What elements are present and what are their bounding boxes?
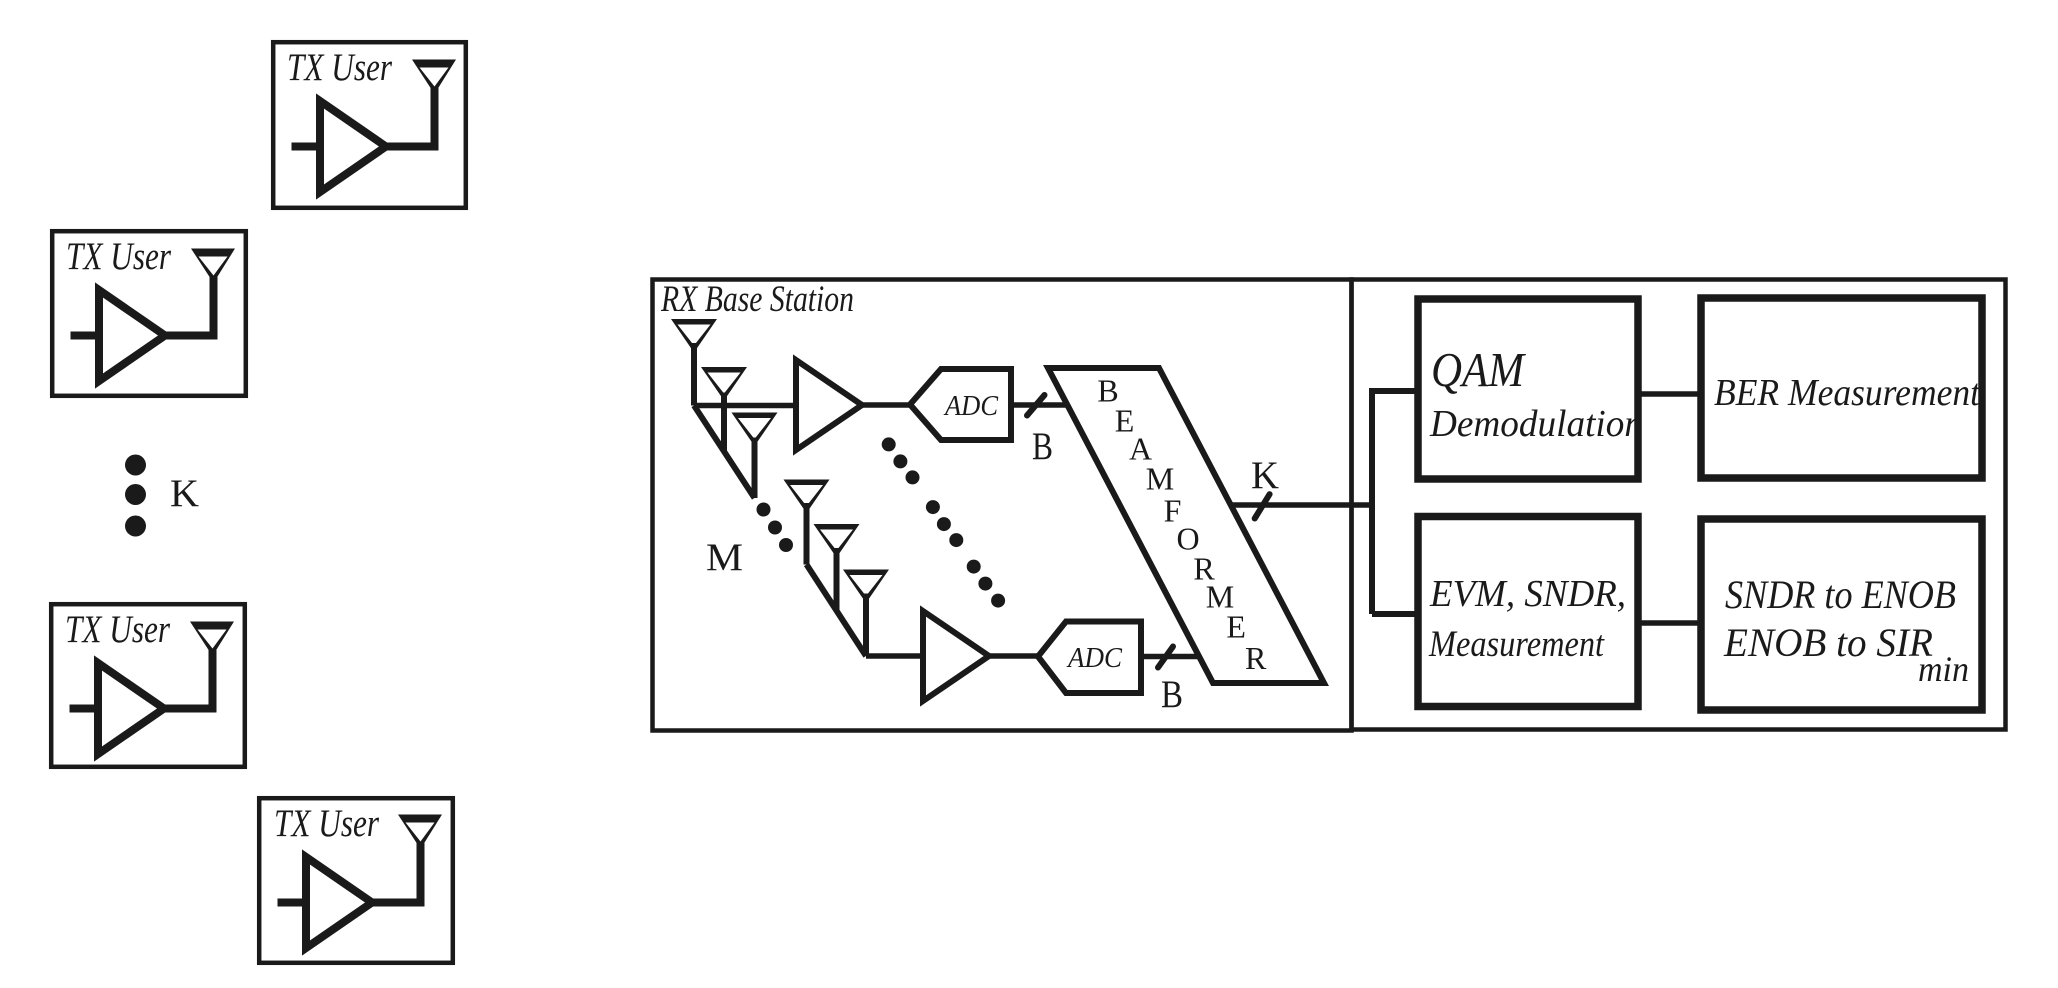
bus width tick B2: [1158, 647, 1173, 668]
bus label B1: [1032, 425, 1053, 468]
svg-text:TX User: TX User: [66, 235, 172, 278]
TX User box 3 label: [65, 608, 171, 651]
svg-text:EVM, SNDR,: EVM, SNDR,: [1429, 573, 1626, 615]
RX antenna 2 stem: [721, 393, 727, 453]
TX User box 4 output wire: [372, 843, 421, 903]
TX User box 1 input wire: [292, 143, 321, 151]
amplifier 1 (LNA): [796, 360, 862, 450]
svg-text:M: M: [1146, 461, 1174, 497]
beamformer label letters: [1097, 373, 1267, 677]
RX antenna 4: [784, 480, 830, 514]
wire amplifier 1 to ADC 1: [862, 402, 912, 408]
ADC 1 label: [943, 390, 998, 422]
QAM Demodulation box: [1418, 299, 1638, 479]
TX User box 4 border: [259, 798, 453, 963]
TX User box 3 border: [51, 604, 245, 767]
wire ADC 1 to beamformer: [1011, 402, 1068, 408]
wire antenna bus to amplifier 2: [866, 653, 923, 659]
middle ellipsis dots (ADC chain gap): [882, 437, 1005, 607]
RX antenna 6 stem: [863, 594, 869, 657]
branch wire to QAM and EVM: [1372, 391, 1418, 614]
RX antenna 2: [701, 367, 747, 401]
amplifier 2 (LNA): [923, 611, 989, 701]
wire ADC 2 to beamformer: [1141, 654, 1199, 660]
TX User box 4 label: [274, 802, 380, 845]
TX User box 3 output wire: [164, 650, 213, 709]
svg-text:B: B: [1032, 425, 1053, 468]
EVM SNDR Measurement label: [1428, 573, 1626, 665]
svg-text:ADC: ADC: [1066, 642, 1122, 674]
TX User box 2 output wire: [165, 277, 214, 336]
svg-text:QAM: QAM: [1431, 342, 1527, 397]
svg-text:ADC: ADC: [943, 390, 998, 422]
SNDR to ENOB box: [1701, 519, 1982, 710]
svg-text:R: R: [1245, 640, 1267, 676]
TX User box 3 input wire: [70, 705, 99, 713]
svg-text:RX Base Station: RX Base Station: [660, 279, 854, 320]
TX User box 2 border: [52, 231, 246, 396]
TX User box 4 antenna: [398, 815, 442, 850]
SNDR to ENOB label: [1723, 572, 1969, 689]
K ellipsis dots: [125, 455, 146, 537]
svg-text:B: B: [1161, 673, 1183, 716]
TX User box 2 input wire: [71, 332, 100, 340]
RX Base Station box: [653, 280, 1352, 731]
svg-text:SNDR to ENOB: SNDR to ENOB: [1725, 572, 1956, 617]
RX antenna 6: [843, 570, 889, 604]
RX antenna 3 stem: [752, 438, 758, 499]
wire beamformer output K: [1231, 502, 1372, 508]
wire amplifier 2 to ADC 2: [989, 653, 1040, 659]
svg-text:M: M: [706, 536, 743, 579]
RX antenna 5 stem: [834, 548, 840, 611]
node M (antenna count label): [706, 536, 743, 579]
BER Measurement label: [1714, 372, 1981, 414]
bus label B2: [1161, 673, 1183, 716]
EVM SNDR Measurement box: [1418, 517, 1638, 707]
svg-text:TX User: TX User: [274, 802, 380, 845]
RX array diagonal 1: [694, 406, 755, 499]
RX array diagonal 2: [807, 565, 867, 657]
RX antenna 1 stem: [691, 343, 697, 406]
TX User box 1 label: [287, 46, 393, 89]
node K (user count label): [170, 472, 199, 515]
BER Measurement box: [1701, 298, 1982, 478]
RX antenna 1: [671, 319, 717, 353]
TX User box 1 antenna: [412, 60, 456, 95]
RX antenna 4 stem: [804, 503, 810, 565]
TX User box 4 input wire: [278, 899, 307, 907]
RX Base Station label: [660, 279, 854, 320]
ADC 1: [910, 369, 1011, 440]
svg-text:min: min: [1918, 649, 1969, 689]
TX User box 3 antenna: [190, 622, 234, 657]
TX User box 2 amplifier: [99, 290, 165, 381]
TX User box 1 border: [273, 42, 466, 208]
svg-text:E: E: [1226, 608, 1246, 644]
svg-text:TX User: TX User: [65, 608, 171, 651]
RX antenna 3: [732, 413, 778, 447]
TX User box 1 amplifier: [320, 101, 386, 192]
TX User box 2 antenna: [191, 249, 235, 284]
bus width tick K: [1255, 494, 1270, 518]
wire antenna bus to amplifier 1: [694, 403, 796, 409]
bus label K: [1251, 454, 1279, 497]
svg-text:BER Measurement: BER Measurement: [1714, 372, 1981, 414]
svg-text:ENOB to SIR: ENOB to SIR: [1723, 620, 1933, 665]
svg-text:Demodulation: Demodulation: [1429, 403, 1643, 445]
TX User box 2 label: [66, 235, 172, 278]
TX User box 4 amplifier: [306, 857, 372, 948]
svg-text:Measurement: Measurement: [1428, 624, 1605, 665]
beamformer block: [1048, 368, 1324, 683]
measurement section outer box: [1352, 280, 2006, 730]
TX User box 1 output wire: [386, 88, 435, 147]
RX antenna 5: [814, 524, 860, 558]
ADC 2: [1038, 622, 1141, 694]
wire EVM to SNDR: [1638, 620, 1701, 626]
svg-text:K: K: [170, 472, 199, 515]
wire QAM to BER: [1638, 391, 1701, 397]
bus width tick B1: [1027, 395, 1045, 416]
array ellipsis dots (antenna group gap): [757, 503, 794, 553]
QAM Demodulation label: [1429, 342, 1643, 445]
ADC 2 label: [1066, 642, 1122, 674]
svg-text:K: K: [1251, 454, 1279, 497]
svg-text:TX User: TX User: [287, 46, 393, 89]
TX User box 3 amplifier: [98, 663, 164, 754]
